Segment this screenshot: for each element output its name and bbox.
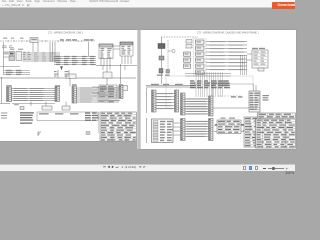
svg-text:272 - WIRING DIAGRAM, CHASSIS: 272 - WIRING DIAGRAM, CHASSIS AND MAIN F…	[197, 31, 260, 34]
svg-text:271 - WIRING DIAGRAM, CAB 1: 271 - WIRING DIAGRAM, CAB 1	[48, 32, 84, 35]
